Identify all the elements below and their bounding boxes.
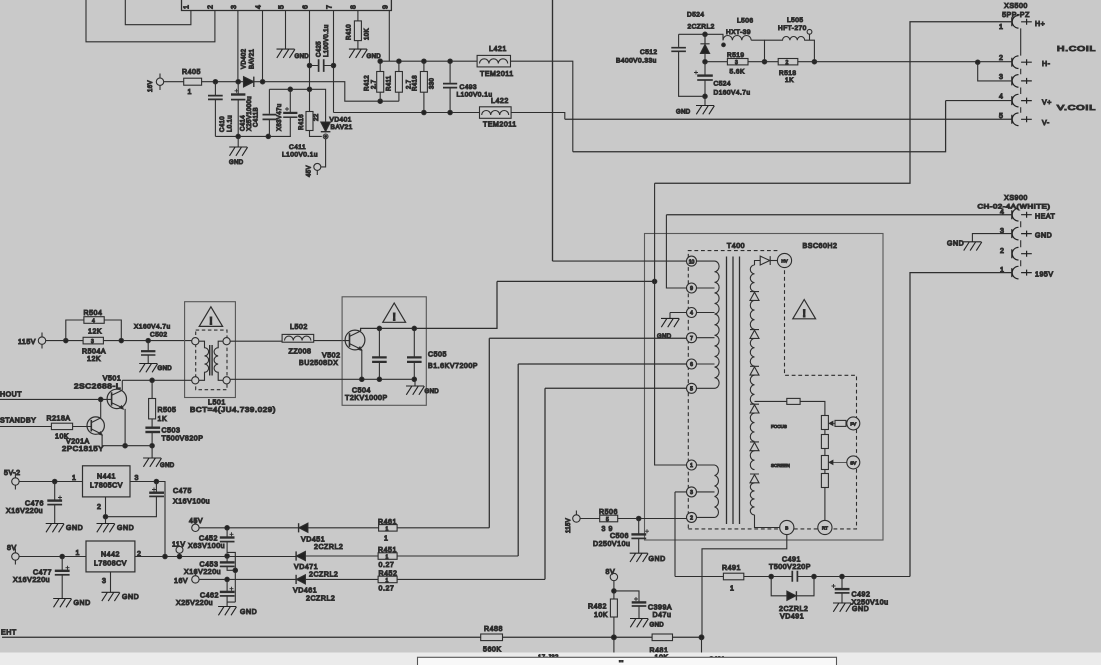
capacitor C475 X16V100u (155, 482, 157, 492)
svg-text:9: 9 (690, 286, 693, 292)
svg-text:R412: R412 (365, 75, 371, 91)
node C506 tap (637, 516, 641, 520)
svg-text:T500V820P: T500V820P (162, 436, 204, 443)
svg-text:4: 4 (999, 94, 1003, 101)
svg-text:3: 3 (91, 339, 94, 345)
bottom light strip (0, 653, 1101, 665)
wire V501 collector (121, 380, 123, 390)
capacitor C506 D250V10u (638, 519, 640, 534)
wire pin3 (237, 11, 239, 82)
svg-text:330: 330 (430, 78, 436, 89)
svg-text:4: 4 (256, 5, 263, 9)
ground pin5 (277, 49, 295, 58)
capacitor C503 T500V820P (145, 427, 160, 429)
svg-text:T2KV1000P: T2KV1000P (345, 395, 388, 402)
svg-text:12K: 12K (87, 356, 101, 363)
resistor R506 3.9 (600, 515, 618, 522)
diode VD401 BAV21 (321, 122, 331, 132)
wire chain (824, 430, 826, 521)
capacitor C505 B1.6KV7200P (412, 326, 416, 330)
wire rail y61 (380, 60, 477, 62)
svg-text:C504: C504 (352, 388, 371, 395)
diode secondary D3 (750, 366, 759, 375)
svg-text:FV: FV (850, 421, 856, 426)
L501 inner dashed (196, 330, 227, 390)
svg-text:8: 8 (351, 5, 358, 9)
resistor R412 2.7 (379, 61, 381, 101)
svg-text:6: 6 (303, 5, 310, 9)
svg-text:X16V220u: X16V220u (6, 508, 43, 515)
wire EHT bottom rail (2, 636, 702, 638)
node FV (847, 417, 860, 430)
node C502 tap (146, 338, 150, 342)
wire secondary top to HV (755, 261, 761, 266)
resistor focus series (787, 398, 800, 404)
wire V+ rail y152 (573, 101, 946, 152)
svg-text:C411B: C411B (254, 107, 260, 127)
wire B feedback route (702, 535, 787, 638)
svg-text:C491: C491 (782, 557, 801, 564)
resistor chain seg1 (821, 416, 828, 430)
wire secondary bottom to B (755, 515, 780, 528)
svg-text:2: 2 (1000, 248, 1004, 255)
ground R410 (349, 49, 367, 58)
L501 core (210, 345, 212, 376)
node R418 top (422, 59, 426, 63)
wire 11V rail row2 (135, 555, 518, 558)
transformer L501 BCT=4 box (185, 302, 236, 398)
node RT (818, 520, 832, 534)
ground V501 emitter (151, 446, 153, 458)
svg-text:X250V10u: X250V10u (852, 600, 889, 607)
capacitor C477 X16V220u (61, 557, 63, 571)
svg-text:D250V10u: D250V10u (593, 541, 630, 548)
svg-text:3: 3 (102, 578, 106, 585)
svg-text:GND: GND (229, 160, 244, 166)
dashed outline T400 (688, 251, 856, 529)
svg-text:HV: HV (781, 259, 787, 264)
wire V502 emitter rail (361, 350, 363, 380)
svg-text:R410: R410 (347, 24, 353, 40)
node C493 bottom (448, 110, 452, 114)
svg-text:BAV21: BAV21 (250, 49, 256, 69)
resistor chain seg3 (821, 456, 828, 470)
pin 1 (687, 460, 697, 470)
svg-text:5: 5 (999, 113, 1003, 120)
node D524 top (703, 32, 707, 36)
svg-text:VD491: VD491 (780, 614, 804, 621)
node VD401 cathode (323, 134, 328, 139)
resistor R504A 12K (83, 337, 103, 344)
node R418 bottom (422, 110, 426, 114)
svg-text:HXT-39: HXT-39 (726, 29, 751, 36)
wire 8V sense down (613, 581, 615, 657)
capacitor C410 L0.1u (214, 82, 216, 95)
T400 core (727, 257, 740, 525)
svg-text:3: 3 (690, 490, 693, 496)
T400 primary winding lower (697, 465, 715, 517)
capacitor C411 L100V0.1u (268, 89, 270, 114)
node pin3 tap (976, 60, 980, 64)
svg-text:GND: GND (122, 594, 139, 601)
svg-text:GND: GND (947, 241, 964, 248)
wire 8V to N442 (19, 556, 86, 558)
svg-text:C476: C476 (25, 501, 44, 508)
svg-text:BU2508DX: BU2508DX (299, 360, 338, 367)
svg-text:R418: R418 (413, 75, 419, 91)
svg-text:H+: H+ (1035, 21, 1045, 28)
svg-text:10K: 10K (594, 612, 608, 619)
capacitor C414 X25V1000u (237, 82, 239, 94)
svg-text:3 9: 3 9 (602, 526, 613, 533)
wire pin1 riser (655, 183, 687, 465)
svg-text:STANDBY: STANDBY (0, 418, 36, 425)
svg-text:2.7: 2.7 (372, 79, 378, 89)
wire H+ route (655, 22, 1012, 184)
terminal 11V (176, 546, 183, 553)
wire to 45V terminal (321, 139, 326, 167)
svg-text:V502: V502 (322, 353, 341, 360)
wire L506 to junction (751, 40, 764, 62)
svg-text:L506: L506 (737, 18, 753, 25)
svg-text:L421: L421 (489, 46, 507, 53)
svg-text:GND: GND (240, 609, 257, 616)
svg-text:2: 2 (690, 516, 693, 522)
ground N441 pin2 (105, 517, 107, 524)
node V502 emitter (360, 377, 364, 381)
node C452 top (225, 526, 229, 530)
resistor chain seg2 (821, 435, 828, 449)
wire N441 pin2 (105, 497, 107, 517)
svg-text:22: 22 (314, 113, 320, 121)
svg-text:CH-02-4A(WHITE): CH-02-4A(WHITE) (978, 204, 1051, 211)
wire V501 emitter (124, 409, 126, 446)
wire N441 out (130, 482, 165, 557)
svg-text:2PC1815Y: 2PC1815Y (62, 446, 104, 453)
svg-text:10K: 10K (365, 28, 371, 40)
node R412 bottom junction (378, 99, 382, 103)
terminal 45V mid (192, 524, 199, 531)
svg-text:V501: V501 (103, 376, 122, 383)
svg-text:R405: R405 (182, 69, 201, 76)
node R504 right (119, 338, 123, 342)
svg-text:C477: C477 (33, 570, 52, 577)
svg-text:R488: R488 (484, 626, 503, 633)
wire rail y112 from pin7 (334, 112, 480, 114)
pin 10 (687, 256, 697, 266)
inductor L422 TEM2011 (480, 107, 512, 119)
terminal 115V mid (573, 515, 580, 522)
wire HOUT (0, 398, 112, 400)
capacitor C491 T500V220P (792, 571, 797, 582)
wire 45V row1 (199, 527, 489, 529)
svg-text:2CZRL2: 2CZRL2 (306, 596, 335, 603)
regulator N442 L7808CV (86, 541, 135, 572)
svg-text:16V: 16V (174, 578, 188, 585)
svg-text:7: 7 (690, 336, 693, 342)
svg-text:L100V0.1u: L100V0.1u (457, 92, 493, 99)
svg-text:L100V0.1u: L100V0.1u (282, 152, 318, 159)
wire pin3 gnd (972, 234, 1011, 242)
wire bus x552 from top (552, 0, 554, 261)
svg-text:1: 1 (690, 463, 693, 469)
capacitor C452 X63V100u (226, 528, 228, 537)
wire H+ mid (497, 280, 655, 282)
svg-text:C492: C492 (852, 592, 871, 599)
svg-text:2CZRL2: 2CZRL2 (688, 24, 715, 31)
svg-text:R451: R451 (378, 547, 397, 554)
svg-text:C475: C475 (173, 488, 192, 495)
wire H- rail (705, 61, 1012, 63)
svg-text:R504A: R504A (82, 349, 106, 356)
svg-text:1: 1 (386, 527, 389, 533)
pin 4 HEAT (1012, 208, 1032, 221)
svg-text:2: 2 (97, 504, 101, 511)
diode secondary D6 (750, 474, 759, 483)
svg-text:9: 9 (383, 5, 390, 9)
pin 4 V+ (1012, 94, 1032, 107)
pin 3 (1012, 75, 1032, 88)
svg-text:BCT=4(JU4.739.029): BCT=4(JU4.739.029) (190, 407, 276, 414)
node EHT R482 junction (612, 635, 617, 640)
ground D524 cluster (704, 96, 706, 105)
wire V502 collector (361, 281, 497, 331)
wiper SV (829, 460, 847, 464)
svg-text:X63V47u: X63V47u (277, 104, 283, 132)
inductor L505 HFT-270 (765, 36, 815, 61)
svg-text:R506: R506 (599, 509, 618, 516)
resistor R505 1K (151, 380, 153, 427)
svg-text:6: 6 (690, 362, 693, 368)
node C462 top (225, 577, 229, 581)
resistor R452 0.27 (378, 576, 397, 583)
svg-text:HEAT: HEAT (1035, 214, 1056, 221)
L501 terminal bottom-left (192, 377, 199, 384)
svg-text:X25V1000u: X25V1000u (247, 96, 253, 131)
wire pin3 riser (675, 492, 686, 577)
svg-text:GND: GND (852, 606, 869, 613)
wire gnd rail to V- (565, 118, 1012, 120)
svg-text:C462: C462 (200, 593, 219, 600)
svg-text:R518: R518 (779, 70, 797, 77)
svg-text:''': ''' (619, 661, 624, 665)
L501 primary winding (199, 341, 209, 380)
svg-text:C493: C493 (460, 84, 478, 91)
svg-text:2: 2 (208, 5, 215, 9)
ground N442 pin3 (110, 572, 112, 592)
svg-text:C425: C425 (317, 41, 323, 57)
wire pin7 (489, 338, 686, 528)
svg-text:X25V220u: X25V220u (176, 600, 213, 607)
svg-text:3: 3 (735, 60, 738, 66)
svg-text:GND: GND (66, 525, 83, 532)
node EHT end junction (699, 635, 704, 640)
node R505 top (150, 378, 154, 382)
svg-text:GND: GND (117, 525, 134, 532)
svg-text:R218A: R218A (47, 416, 71, 423)
resistor R218A 10K (51, 423, 72, 429)
capacitor C425 L100V0.1u (307, 63, 311, 67)
svg-text:X16V220u: X16V220u (184, 569, 221, 576)
capacitor C453 X16V220u (226, 556, 228, 562)
resistor R504 12K parallel (66, 320, 122, 341)
node C493 top (448, 59, 452, 63)
connector body links (1020, 28, 1022, 112)
svg-text:1: 1 (730, 586, 734, 593)
svg-text:C505: C505 (428, 352, 447, 359)
svg-text:5: 5 (606, 517, 609, 523)
svg-text:C453: C453 (200, 562, 219, 569)
svg-text:VD402: VD402 (242, 48, 248, 69)
node C524 bottom (703, 94, 707, 98)
wire L502 to V502 base (314, 340, 350, 342)
svg-text:V-: V- (1042, 120, 1050, 127)
svg-text:VD461: VD461 (293, 588, 317, 595)
svg-text:EHT: EHT (1, 630, 17, 637)
node D524 bottom (703, 60, 707, 64)
wire 16V rail (164, 82, 399, 102)
svg-text:L505: L505 (787, 17, 803, 24)
diode secondary D5 (750, 442, 759, 451)
svg-text:1: 1 (72, 475, 76, 482)
svg-text:4: 4 (690, 311, 693, 317)
svg-text:1: 1 (184, 5, 191, 9)
svg-text:5.6K: 5.6K (730, 69, 746, 76)
wire pin3 to H- (978, 62, 1012, 81)
svg-text:X63V100u: X63V100u (188, 543, 225, 550)
op-amp IC N401 box (cut off at top) (182, 0, 392, 11)
T400 secondary winding (750, 265, 754, 291)
warning triangle T400 (793, 300, 816, 319)
node V501 emitter junction (123, 444, 127, 448)
svg-text:BAV21: BAV21 (331, 124, 353, 131)
svg-text:2: 2 (786, 60, 789, 66)
pin 9 (687, 283, 697, 293)
svg-text:C502: C502 (150, 332, 168, 339)
diode VD402 BAV21 (244, 77, 254, 87)
diode VD451 2CZRL2 (298, 523, 300, 532)
resistor R491 1 (723, 573, 743, 580)
box T400 enclosure (645, 234, 884, 541)
svg-text:B400V0.33u: B400V0.33u (616, 58, 657, 65)
node C476 tap (53, 479, 57, 483)
wire R506 to pin2 (618, 518, 687, 520)
wire 45V loop top rail (269, 89, 325, 121)
wire pin6 (518, 364, 686, 556)
svg-text:3: 3 (999, 74, 1003, 81)
svg-text:X160V4.7u: X160V4.7u (134, 324, 171, 331)
regulator N441 L7805CV (83, 466, 131, 497)
transistor V201A 2PC1815Y (87, 417, 104, 434)
svg-text:R482: R482 (588, 604, 607, 611)
resistor R411 2.7 (398, 61, 400, 101)
pin 3 GND (1012, 227, 1032, 240)
terminal 5V-2 (12, 478, 19, 485)
svg-text:VD401: VD401 (330, 117, 352, 124)
node R411 top (397, 59, 401, 63)
svg-text:1K: 1K (158, 416, 168, 423)
svg-text:GND: GND (295, 54, 310, 60)
connector body links XS900 (1020, 221, 1022, 266)
pin 2 (687, 512, 697, 522)
svg-text:H-: H- (1042, 61, 1051, 68)
wire pin4 gnd (670, 313, 686, 319)
wire pin9 (388, 11, 390, 62)
svg-text:1: 1 (386, 578, 389, 584)
svg-text:1: 1 (999, 24, 1003, 31)
wire V201A emitter (102, 434, 152, 445)
pin 1 195V (1012, 266, 1032, 279)
svg-text:R416: R416 (299, 114, 305, 130)
diode VD491 2CZRL2 (771, 577, 814, 596)
resistor R418 330 (423, 61, 425, 112)
svg-text:0.27: 0.27 (379, 562, 395, 569)
svg-text:V201A: V201A (66, 439, 90, 446)
wire pin4 (262, 11, 264, 82)
capacitor C462 X25V220u (226, 579, 228, 591)
svg-text:X16V220u: X16V220u (13, 577, 50, 584)
wire 115V to R506 (580, 518, 600, 520)
svg-text:5V-2: 5V-2 (4, 470, 21, 477)
svg-text:T500V220P: T500V220P (769, 564, 811, 571)
svg-text:45V: 45V (307, 165, 313, 177)
svg-text:R505: R505 (158, 407, 177, 414)
wire pin1 route (125, 0, 191, 25)
wire pin10 from bus (553, 260, 687, 262)
resistor R416 22 (307, 87, 311, 91)
terminal 8V (12, 553, 19, 560)
svg-text:1: 1 (384, 536, 388, 543)
node N441 join (163, 554, 167, 558)
L501 secondary winding (214, 341, 223, 380)
node C503 bottom (150, 444, 154, 448)
inductor L506 HXT-39 (723, 35, 751, 40)
svg-text:1: 1 (386, 555, 389, 561)
wire top rail D524 (679, 34, 723, 40)
svg-text:GND: GND (74, 600, 91, 607)
svg-text:H.COIL: H.COIL (1057, 46, 1096, 53)
pin 4 (687, 308, 697, 318)
terminal 8V sense (610, 573, 617, 580)
wire V+ (946, 100, 1012, 102)
svg-text:SV: SV (850, 460, 856, 465)
svg-text:RT: RT (822, 526, 828, 531)
wiper FV (829, 421, 835, 425)
node C492 tap (840, 574, 844, 578)
resistor R451 0.27 (378, 553, 397, 560)
terminal 16V input (156, 78, 163, 85)
svg-text:GND: GND (160, 463, 175, 469)
svg-text:GND: GND (649, 556, 666, 563)
node VD491 right (812, 574, 816, 578)
transistor V501 2SC2688-L (107, 389, 126, 408)
capacitor C476 X16V220u (54, 482, 56, 500)
pin 5 V- (1012, 113, 1032, 126)
svg-text:R461: R461 (378, 519, 397, 526)
pin 7 (687, 333, 697, 343)
wire ground rail under caps (215, 135, 291, 137)
svg-text:C410: C410 (220, 116, 226, 132)
svg-text:C414: C414 (241, 115, 247, 131)
svg-text:VD471: VD471 (294, 564, 318, 571)
pin 5 (687, 383, 697, 393)
svg-text:TEM2011: TEM2011 (480, 71, 514, 78)
wire pin6 (309, 11, 311, 90)
svg-text:0.27: 0.27 (379, 586, 395, 593)
L501 terminal top-right (223, 338, 230, 345)
svg-text:L7808CV: L7808CV (94, 561, 127, 568)
diode VD471 2CZRL2 (295, 551, 297, 560)
